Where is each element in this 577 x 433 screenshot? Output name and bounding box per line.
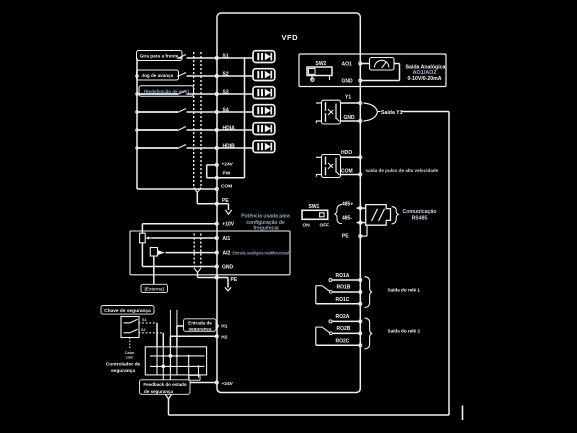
svg-text:AI2: AI2 — [223, 251, 231, 257]
svg-text:frequência: frequência — [253, 226, 279, 232]
svg-text:ON: ON — [303, 223, 311, 229]
svg-text:SW1: SW1 — [309, 204, 320, 210]
svg-text:H2: H2 — [221, 334, 227, 340]
svg-text:H1: H1 — [221, 324, 227, 330]
svg-text:segurança: segurança — [111, 368, 135, 374]
svg-text:PE: PE — [342, 234, 349, 240]
svg-text:Saída do relé 1: Saída do relé 1 — [388, 287, 421, 292]
svg-text:S2: S2 — [141, 328, 146, 332]
svg-text:S4: S4 — [223, 107, 229, 113]
svg-text:(Redefinição de erro): (Redefinição de erro) — [144, 89, 190, 94]
svg-text:HDO: HDO — [341, 150, 352, 156]
svg-text:com: com — [126, 355, 134, 359]
svg-text:RO1C: RO1C — [336, 297, 350, 303]
svg-text:de segurança: de segurança — [144, 389, 174, 394]
svg-text:segurança: segurança — [189, 326, 212, 331]
svg-text:Entrada analógica multifuncion: Entrada analógica multifuncional — [233, 250, 290, 255]
svg-text:OFF: OFF — [320, 223, 330, 229]
svg-text:Saída Y1: Saída Y1 — [381, 110, 403, 116]
svg-text:+24V: +24V — [222, 381, 234, 387]
svg-text:Feedback do estado: Feedback do estado — [143, 382, 187, 387]
svg-text:RO2B: RO2B — [337, 326, 351, 332]
svg-text:+24V: +24V — [222, 162, 234, 168]
svg-text:PE: PE — [222, 198, 229, 204]
svg-text:AI1: AI1 — [223, 236, 231, 242]
svg-text:GND: GND — [222, 265, 234, 271]
svg-text:Gira para a frente: Gira para a frente — [140, 54, 179, 59]
svg-text:Comunicação: Comunicação — [402, 209, 436, 215]
svg-text:Potência usada para: Potência usada para — [241, 213, 290, 219]
svg-text:AO1: AO1 — [342, 62, 353, 68]
svg-text:+10V: +10V — [222, 222, 234, 228]
svg-text:COM: COM — [341, 169, 353, 175]
svg-text:Saída do relé 2: Saída do relé 2 — [388, 329, 421, 334]
svg-text:RO1B: RO1B — [337, 285, 351, 291]
svg-text:PE: PE — [231, 277, 238, 283]
svg-text:saída de pulso de alta velocid: saída de pulso de alta velocidade — [366, 168, 439, 173]
svg-text:GND: GND — [342, 79, 354, 85]
svg-text:COM: COM — [221, 184, 232, 190]
svg-text:Chave de segurança: Chave de segurança — [104, 308, 151, 314]
svg-text:Entrada de: Entrada de — [188, 321, 212, 326]
svg-text:RS485: RS485 — [412, 215, 428, 221]
svg-text:S1: S1 — [142, 318, 147, 322]
svg-text:(Externa): (Externa) — [144, 287, 164, 292]
svg-text:485+: 485+ — [342, 201, 353, 207]
svg-text:S2: S2 — [223, 71, 229, 77]
svg-text:S3: S3 — [223, 89, 229, 95]
svg-text:0-10V/0-20mA: 0-10V/0-20mA — [407, 76, 441, 82]
svg-text:VFD: VFD — [282, 33, 299, 42]
svg-text:RO2A: RO2A — [336, 314, 350, 320]
svg-text:Y1: Y1 — [345, 95, 351, 101]
svg-text:Controlador de: Controlador de — [106, 361, 141, 367]
svg-text:RO1A: RO1A — [336, 273, 350, 279]
svg-text:PW: PW — [223, 171, 231, 177]
svg-text:RO2C: RO2C — [336, 338, 350, 344]
svg-text:GND: GND — [344, 115, 356, 121]
svg-text:485-: 485- — [342, 216, 352, 222]
svg-text:HDIB: HDIB — [223, 143, 236, 149]
svg-text:Jog de avanço: Jog de avanço — [142, 73, 174, 78]
svg-text:S1: S1 — [223, 53, 229, 59]
svg-text:HDIA: HDIA — [223, 125, 236, 131]
